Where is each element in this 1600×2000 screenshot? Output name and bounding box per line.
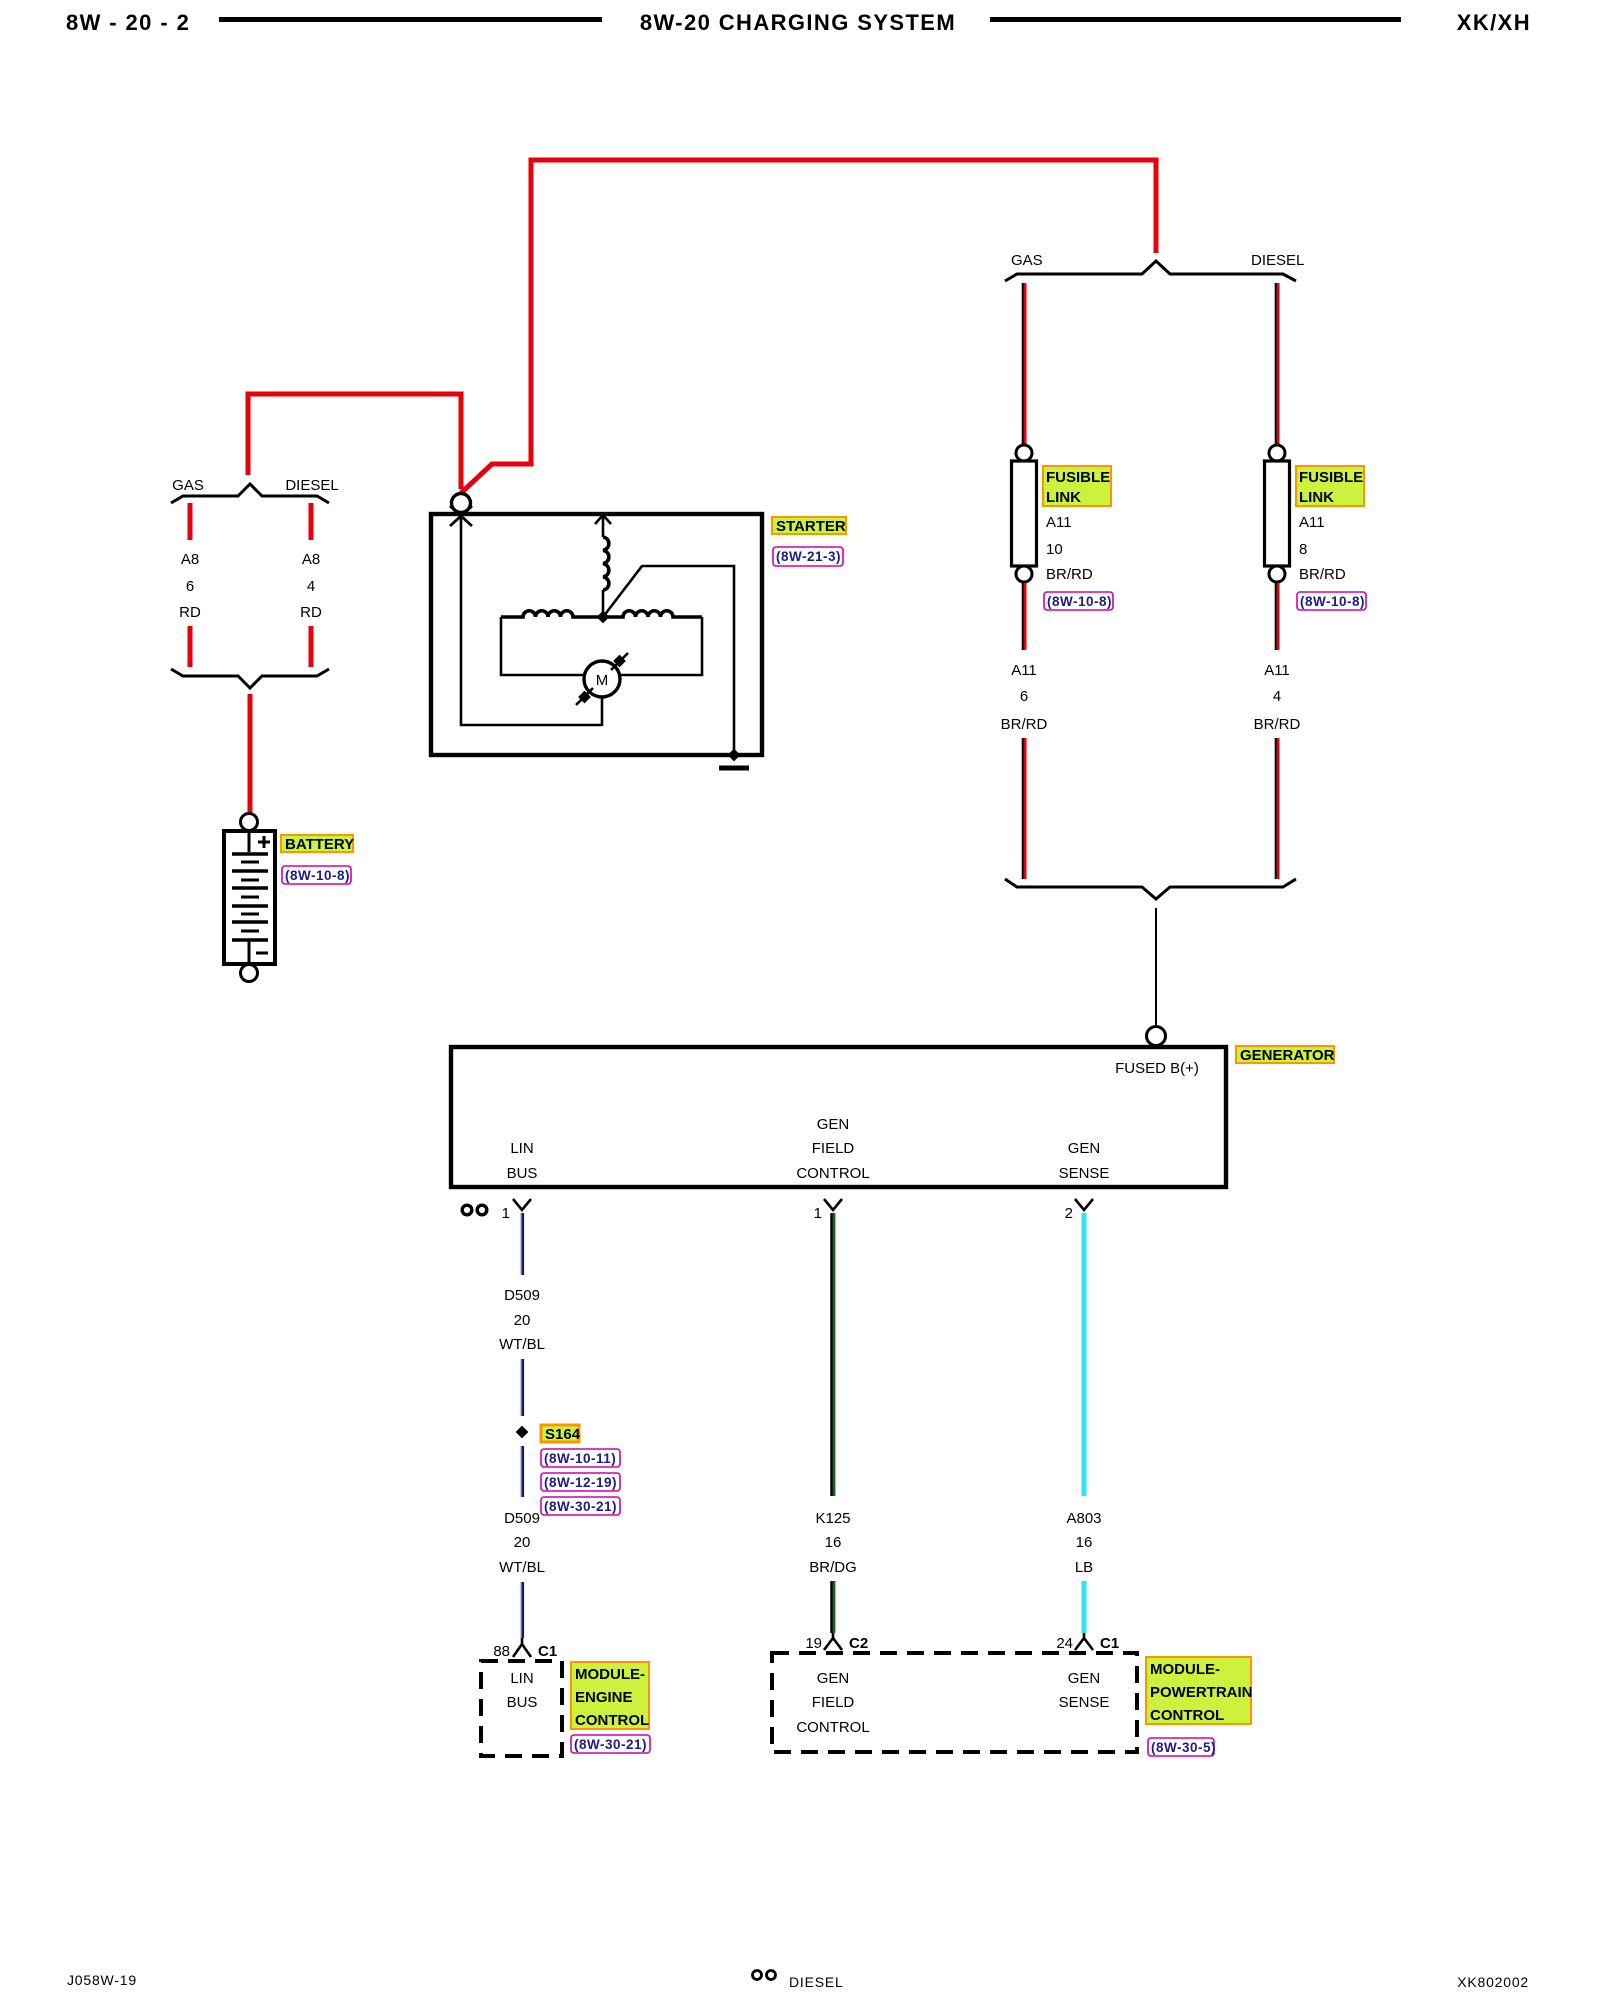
- svg-text:4: 4: [1273, 688, 1281, 705]
- label GAS right: [1011, 252, 1043, 269]
- svg-text:ENGINE: ENGINE: [575, 1689, 633, 1706]
- svg-text:BR/RD: BR/RD: [1001, 716, 1048, 733]
- svg-text:GENERATOR: GENERATOR: [1240, 1047, 1335, 1064]
- label FUSIBLE LINK gas: [1043, 466, 1111, 506]
- svg-text:CONTROL: CONTROL: [575, 1712, 649, 1729]
- footer diesel legend text: [789, 1974, 844, 1990]
- starter motor M: [584, 661, 620, 697]
- svg-text:A11: A11: [1264, 662, 1290, 679]
- svg-text:(8W-12-19): (8W-12-19): [544, 1475, 617, 1490]
- svg-text:RD: RD: [179, 604, 201, 621]
- junction dot starter windings: [597, 611, 610, 624]
- svg-text:(8W-21-3): (8W-21-3): [776, 549, 841, 564]
- svg-text:LINK: LINK: [1046, 489, 1081, 506]
- svg-text:10: 10: [1046, 541, 1063, 558]
- svg-text:6: 6: [1020, 688, 1028, 705]
- svg-text:GEN: GEN: [1068, 1140, 1101, 1157]
- fusible link gas: [1012, 445, 1037, 582]
- svg-text:D509: D509: [504, 1287, 540, 1304]
- label fuse A11 10 BR/RD: [1046, 514, 1093, 583]
- module-engine control box: [481, 1661, 562, 1756]
- svg-text:16: 16: [825, 1534, 842, 1551]
- svg-text:DIESEL: DIESEL: [789, 1974, 844, 1990]
- svg-text:(8W-30-21): (8W-30-21): [574, 1737, 647, 1752]
- svg-text:D509: D509: [504, 1510, 540, 1527]
- svg-text:C2: C2: [849, 1635, 868, 1652]
- label wire A11 6 BR/RD: [1001, 662, 1048, 733]
- wire starter internal B+ branch: [461, 516, 602, 725]
- label generator GEN SENSE: [1059, 1140, 1110, 1182]
- svg-text:16: 16: [1076, 1534, 1093, 1551]
- pin 19 C2 module-powertrain control: [805, 1633, 868, 1652]
- svg-text:1: 1: [814, 1205, 822, 1222]
- svg-text:STARTER: STARTER: [776, 518, 846, 535]
- label MODULE-ENGINE CONTROL: [571, 1662, 649, 1729]
- svg-text:A11: A11: [1011, 662, 1037, 679]
- svg-text:GEN: GEN: [1068, 1670, 1101, 1687]
- label wire A803 16 LB: [1066, 1510, 1101, 1576]
- svg-text:1: 1: [502, 1205, 510, 1222]
- module-powertrain control box: [772, 1653, 1137, 1752]
- wire K125 16 BR/DG segment 2: [832, 1581, 835, 1633]
- svg-text:RD: RD: [300, 604, 322, 621]
- starter solenoid switch contact: [603, 566, 734, 753]
- label DIESEL right: [1251, 252, 1304, 269]
- svg-text:8: 8: [1299, 541, 1307, 558]
- pin 24 C1 module-powertrain control: [1056, 1633, 1119, 1652]
- svg-text:2: 2: [1065, 1205, 1073, 1222]
- label wire A8 4 RD: [300, 551, 322, 621]
- generator box: [451, 1047, 1226, 1187]
- wire red battery positive feed: [248, 694, 253, 813]
- pin 1 generator GEN FIELD CONTROL: [814, 1199, 842, 1222]
- svg-text:MODULE-: MODULE-: [575, 1666, 645, 1683]
- svg-text:BR/DG: BR/DG: [809, 1559, 857, 1576]
- label generator LIN BUS: [507, 1140, 538, 1182]
- starter solenoid arrow: [595, 515, 611, 537]
- splice S164: [516, 1426, 529, 1439]
- wire A11 8 BR/RD upper segment: [1276, 283, 1278, 445]
- svg-text:DIESEL: DIESEL: [1251, 252, 1304, 269]
- fusible link diesel: [1265, 445, 1290, 582]
- label BATTERY: [281, 835, 354, 853]
- svg-text:(8W-10-11): (8W-10-11): [544, 1451, 616, 1466]
- label wire D509 20 WT/BL upper: [499, 1287, 545, 1353]
- footer drawing number: [67, 1972, 137, 1988]
- svg-text:WT/BL: WT/BL: [499, 1336, 545, 1353]
- svg-text:BR/RD: BR/RD: [1299, 566, 1346, 583]
- svg-text:(8W-30-5): (8W-30-5): [1151, 1740, 1216, 1755]
- svg-text:(8W-10-8): (8W-10-8): [285, 868, 350, 883]
- svg-text:WT/BL: WT/BL: [499, 1559, 545, 1576]
- wire D509 20 WT/BL segment 2: [521, 1359, 523, 1416]
- svg-text:FUSIBLE: FUSIBLE: [1299, 469, 1363, 486]
- svg-text:LB: LB: [1075, 1559, 1093, 1576]
- svg-text:GAS: GAS: [172, 477, 204, 494]
- ref 8W-10-11 splice: [541, 1449, 620, 1467]
- svg-text:S164: S164: [545, 1426, 581, 1443]
- ref 8W-10-8 fusible link gas: [1044, 592, 1113, 610]
- battery: [224, 831, 275, 964]
- ref 8W-10-8 battery: [282, 866, 351, 884]
- ref 8W-21-3 starter: [773, 547, 843, 566]
- svg-text:19: 19: [805, 1635, 822, 1652]
- svg-text:(8W-30-21): (8W-30-21): [544, 1499, 617, 1514]
- svg-text:A8: A8: [181, 551, 199, 568]
- label module LIN BUS: [507, 1670, 538, 1711]
- footer sheet code: [1457, 1974, 1529, 1990]
- battery positive terminal: [241, 814, 258, 831]
- svg-text:88: 88: [493, 1643, 510, 1660]
- wire A11 6 BR/RD middle segment: [1023, 583, 1025, 650]
- svg-text:SENSE: SENSE: [1059, 1165, 1110, 1182]
- wire A11 4 BR/RD lower segment: [1276, 738, 1278, 879]
- vehicle code XK/XH: [1457, 10, 1531, 35]
- brace generator feed gas/diesel top: [1005, 261, 1296, 281]
- wire red feed from battery branch to starter node: [248, 394, 461, 489]
- starter terminal X mark: [450, 506, 472, 526]
- svg-text:GEN: GEN: [817, 1670, 850, 1687]
- svg-text:BATTERY: BATTERY: [285, 836, 354, 853]
- starter armature loop wires: [501, 617, 702, 675]
- starter field winding left: [501, 611, 603, 617]
- svg-text:A8: A8: [302, 551, 320, 568]
- svg-text:FUSIBLE: FUSIBLE: [1046, 469, 1110, 486]
- label wire K125 16 BR/DG: [809, 1510, 857, 1576]
- svg-text:(8W-10-8): (8W-10-8): [1047, 594, 1112, 609]
- svg-text:A11: A11: [1046, 514, 1072, 531]
- svg-text:XK/XH: XK/XH: [1457, 10, 1531, 35]
- header rule left: [219, 17, 602, 22]
- ground starter case: [719, 766, 749, 771]
- ref 8W-10-8 fusible link diesel: [1297, 592, 1366, 610]
- brace battery feed gas/diesel top: [171, 484, 329, 503]
- svg-text:LINK: LINK: [1299, 489, 1334, 506]
- svg-text:BR/RD: BR/RD: [1254, 716, 1301, 733]
- svg-text:C1: C1: [538, 1643, 557, 1660]
- pin 1 generator LIN BUS: [502, 1199, 531, 1222]
- label module GEN SENSE: [1059, 1670, 1110, 1711]
- svg-text:M: M: [596, 672, 609, 689]
- starter brush upper right: [611, 653, 628, 670]
- junction dot starter ground: [728, 749, 741, 762]
- wire motor to ground bus: [601, 697, 604, 726]
- title 8W-20 CHARGING SYSTEM: [640, 10, 956, 35]
- svg-text:POWERTRAIN: POWERTRAIN: [1150, 1684, 1253, 1701]
- wire A8 4 RD diesel segment lower: [309, 626, 314, 667]
- svg-text:XK802002: XK802002: [1457, 1974, 1529, 1990]
- svg-text:A11: A11: [1299, 514, 1325, 531]
- svg-text:SENSE: SENSE: [1059, 1694, 1110, 1711]
- brace battery feed bottom: [171, 669, 329, 688]
- node generator B+ terminal: [1147, 1027, 1166, 1046]
- wire D509 20 WT/BL segment 1: [521, 1213, 523, 1275]
- svg-text:LIN: LIN: [510, 1670, 533, 1687]
- wire A803 16 LB segment 1: [1082, 1213, 1087, 1496]
- label FUSED B(+): [1115, 1060, 1199, 1077]
- label wire A11 4 BR/RD: [1254, 662, 1301, 733]
- svg-text:4: 4: [307, 578, 315, 595]
- svg-text:8W-20 CHARGING SYSTEM: 8W-20 CHARGING SYSTEM: [640, 10, 956, 35]
- label module GEN FIELD CONTROL: [796, 1670, 869, 1736]
- wire A11 10 BR/RD upper segment: [1023, 283, 1025, 445]
- label S164: [541, 1425, 581, 1443]
- svg-text:FIELD: FIELD: [812, 1140, 855, 1157]
- wire D509 20 WT/BL segment 3: [521, 1446, 523, 1497]
- wire A11 4 BR/RD middle segment: [1276, 583, 1278, 650]
- wire generator fused B+ lead: [1155, 908, 1157, 1026]
- label FUSIBLE LINK diesel: [1296, 466, 1364, 506]
- svg-text:FIELD: FIELD: [812, 1694, 855, 1711]
- svg-text:8W - 20 - 2: 8W - 20 - 2: [66, 10, 190, 35]
- label DIESEL left: [285, 477, 338, 494]
- starter solenoid coil: [603, 537, 609, 590]
- diesel-only marker generator pin 1: [462, 1205, 487, 1215]
- svg-text:6: 6: [186, 578, 194, 595]
- svg-text:K125: K125: [815, 1510, 850, 1527]
- page number 8W-20-2: [66, 10, 190, 35]
- footer diesel legend marker: [753, 1971, 776, 1980]
- svg-text:CONTROL: CONTROL: [796, 1719, 869, 1736]
- battery negative terminal: [241, 965, 258, 982]
- wire A8 4 RD diesel segment upper: [309, 503, 314, 540]
- svg-text:LIN: LIN: [510, 1140, 533, 1157]
- label STARTER: [772, 517, 846, 535]
- svg-text:BUS: BUS: [507, 1694, 538, 1711]
- svg-text:C1: C1: [1100, 1635, 1119, 1652]
- starter brush lower left: [576, 688, 593, 705]
- svg-text:BUS: BUS: [507, 1165, 538, 1182]
- svg-text:GEN: GEN: [817, 1116, 850, 1133]
- brace generator feed bottom: [1005, 879, 1296, 899]
- wire solenoid coil to junction: [602, 590, 605, 616]
- wire K125 16 BR/DG segment 1: [832, 1213, 835, 1496]
- node starter B+ terminal: [452, 494, 471, 513]
- label GAS left: [172, 477, 204, 494]
- starter field winding right: [603, 611, 702, 617]
- label wire A8 6 RD: [179, 551, 201, 621]
- svg-text:(8W-10-8): (8W-10-8): [1300, 594, 1365, 609]
- label fuse A11 8 BR/RD: [1299, 514, 1346, 583]
- svg-text:CONTROL: CONTROL: [1150, 1707, 1224, 1724]
- ref 8W-30-21 module-engine control: [571, 1735, 650, 1753]
- starter U-box: [431, 514, 762, 755]
- svg-text:A803: A803: [1066, 1510, 1101, 1527]
- label MODULE-POWERTRAIN CONTROL: [1146, 1657, 1253, 1724]
- svg-text:BR/RD: BR/RD: [1046, 566, 1093, 583]
- ref 8W-30-5 module-powertrain control: [1148, 1738, 1216, 1756]
- wire D509 20 WT/BL segment 4: [521, 1582, 523, 1638]
- svg-text:FUSED B(+): FUSED B(+): [1115, 1060, 1199, 1077]
- label GENERATOR: [1236, 1046, 1335, 1064]
- svg-text:20: 20: [514, 1534, 531, 1551]
- wire A8 6 RD gas segment upper: [188, 503, 193, 540]
- wire A11 6 BR/RD lower segment: [1023, 738, 1025, 879]
- pin 88 C1 module-engine control: [493, 1638, 557, 1660]
- ref 8W-30-21 splice: [541, 1497, 620, 1515]
- pin 2 generator GEN SENSE: [1065, 1199, 1093, 1222]
- wire red feed from starter node to generator branch: [461, 160, 1156, 493]
- svg-text:CONTROL: CONTROL: [796, 1165, 869, 1182]
- header rule right: [990, 17, 1401, 22]
- svg-text:J058W-19: J058W-19: [67, 1972, 137, 1988]
- label wire D509 20 WT/BL lower: [499, 1510, 545, 1576]
- wire A8 6 RD gas segment lower: [188, 626, 193, 667]
- svg-text:MODULE-: MODULE-: [1150, 1661, 1220, 1678]
- svg-text:20: 20: [514, 1312, 531, 1329]
- svg-text:24: 24: [1056, 1635, 1073, 1652]
- svg-text:DIESEL: DIESEL: [285, 477, 338, 494]
- label generator GEN FIELD CONTROL: [796, 1116, 869, 1182]
- wire A803 16 LB segment 2: [1082, 1581, 1087, 1633]
- ref 8W-12-19 splice: [541, 1473, 620, 1491]
- svg-text:GAS: GAS: [1011, 252, 1043, 269]
